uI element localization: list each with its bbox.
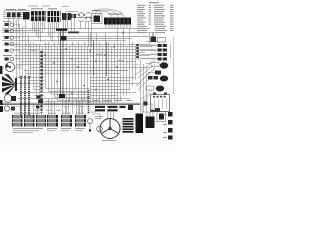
wire drops between bus and bottom connectors	[21, 99, 83, 115]
wire lower mesh horizontals	[16, 78, 140, 102]
alternator brush circle	[97, 126, 103, 132]
wire connector ladder right of groups	[88, 90, 90, 114]
battery box	[151, 93, 170, 112]
wire right margin vertical	[173, 36, 175, 94]
headlight bulb circle	[4, 95, 16, 103]
rectifier fins	[123, 118, 134, 133]
legend table rows	[137, 5, 174, 33]
rectifier unit block	[146, 112, 155, 128]
left small component pair lower	[4, 106, 15, 111]
headlight rim	[15, 78, 17, 91]
left small label 6	[3, 55, 12, 56]
handlebar switch symbol left	[78, 13, 85, 22]
wire loops over ignition switch	[92, 9, 124, 17]
junction blob cluster left-mid	[36, 96, 43, 109]
speedometer gauge	[5, 62, 22, 71]
left indicator lamp pair 3	[5, 36, 21, 39]
fuse box	[104, 14, 131, 29]
bottom connector group 3	[61, 113, 72, 131]
multi-pin connector group A	[31, 11, 46, 21]
alternator	[100, 119, 120, 139]
connector block left 4	[23, 12, 30, 20]
dark bar on bus right	[68, 32, 79, 34]
legend table title	[149, 2, 159, 3]
wire right-side diagonals	[135, 60, 155, 104]
assorted tiny labels middle	[30, 46, 124, 101]
right small connector pair row 4	[150, 58, 167, 61]
connector block small left 1	[7, 13, 11, 18]
right small connector pair row 1	[150, 44, 167, 47]
wire middle mesh horizontals	[14, 47, 152, 74]
component block below legend	[151, 33, 157, 42]
wire stubs to right connector pairs	[140, 42, 171, 73]
connector pair D	[70, 14, 76, 18]
right small connector pair row 2	[150, 49, 167, 52]
alternator label cluster	[95, 116, 103, 119]
label text top center	[28, 6, 69, 7]
bottom connector group 4	[75, 113, 86, 131]
left component row 5	[5, 49, 21, 52]
left edge ground bar 1	[0, 66, 3, 74]
wire top-left horizontal bus	[3, 11, 92, 19]
connector block small left 2	[12, 13, 16, 18]
left edge ground bar 2	[0, 100, 3, 105]
vertical connector strip 4 long	[40, 51, 42, 113]
ignition coil 1 windings	[95, 106, 105, 112]
label top far-left	[3, 21, 11, 22]
right small connector pair row 3	[150, 53, 167, 56]
ignition switch box	[92, 10, 103, 24]
connector label text row top-left	[6, 8, 57, 10]
multi-pin connector group B	[48, 11, 61, 22]
wires into alternator area	[90, 112, 157, 129]
left indicator lamp pair 2	[5, 29, 21, 32]
label box above regulator	[142, 104, 152, 112]
handlebar switch symbol right	[85, 13, 91, 22]
connector block small left 3	[17, 13, 21, 18]
bottom connector group 2	[47, 113, 58, 131]
wire dashed line below bus	[16, 106, 92, 108]
label text row under strips	[34, 109, 61, 112]
starter relay box	[157, 112, 166, 122]
left component row 4	[5, 42, 21, 45]
tail lamp connector pair	[148, 76, 158, 80]
dark square on bus	[61, 36, 67, 41]
small oil pressure switch circle	[88, 119, 93, 132]
horn label box	[151, 63, 159, 67]
vertical connector strip 3	[28, 76, 30, 115]
ignition coil 3 short winding	[120, 105, 134, 111]
ignition coil 2 windings	[108, 106, 118, 112]
brake lamp label box	[146, 86, 154, 90]
junction dots	[44, 32, 123, 94]
wire drops into alternator	[108, 110, 114, 120]
dark segment on bus	[56, 29, 67, 31]
headlight shell fan	[2, 74, 16, 95]
small box component right	[158, 38, 166, 43]
regulator black block	[136, 114, 144, 134]
label row above coils	[92, 100, 132, 101]
connector pair C	[62, 13, 71, 20]
wire main horizontal harness bundle	[2, 29, 155, 45]
vertical connector strip 1	[20, 76, 22, 115]
wire dashed rows center-right	[88, 59, 154, 71]
label under alternator	[102, 140, 116, 141]
brake lamp	[156, 86, 164, 92]
vertical connector strip 2	[24, 76, 26, 115]
bottom connector array left block	[12, 113, 46, 133]
left indicator lamp pair 1	[5, 23, 21, 26]
right connector strip vertical	[136, 44, 138, 58]
dark mark right of label box	[155, 108, 160, 112]
tail lamp	[160, 76, 168, 82]
fuse holder blob left of battery	[144, 102, 148, 106]
wire vertical pin drops from top connectors	[9, 18, 92, 47]
left component row 7	[5, 57, 21, 60]
wire frame ground bus double line	[2, 103, 140, 104]
right mini legend marks	[163, 112, 173, 140]
wire darker vertical pair center-right	[94, 40, 107, 76]
wire staircase bends center	[46, 89, 91, 101]
junction blob mid	[59, 94, 65, 98]
wire left vertical bundle	[17, 20, 29, 78]
relay below horn	[155, 71, 161, 75]
dark double wire vertical	[61, 29, 64, 95]
wire middle vertical mesh	[31, 28, 153, 114]
horn	[160, 62, 168, 68]
